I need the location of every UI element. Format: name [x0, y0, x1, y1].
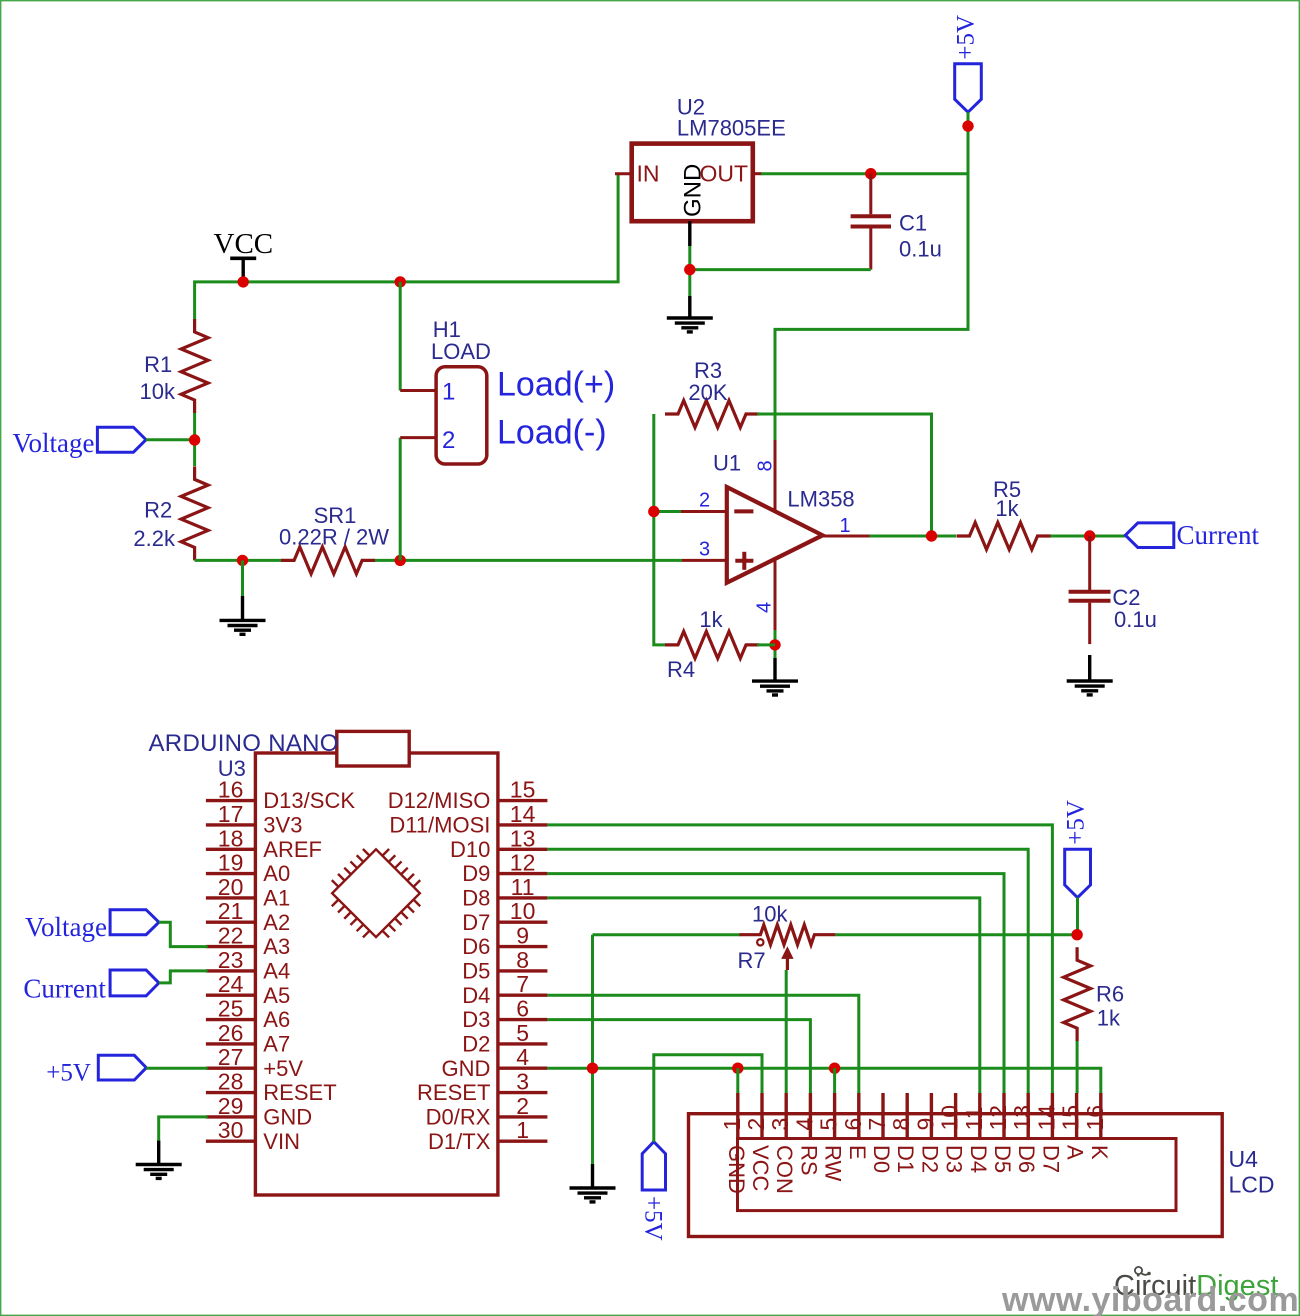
wire H1 pin 2 branch [400, 438, 436, 561]
svg-text:R2: R2 [144, 498, 172, 523]
wire junction to ground [241, 560, 244, 620]
label Load(-) [497, 414, 607, 452]
U3 pin 4 GND [442, 1044, 548, 1081]
U4 pin 16 K [1082, 1093, 1112, 1160]
svg-text:GND: GND [724, 1145, 749, 1194]
node inverting input junction [648, 506, 659, 517]
wire VCC rail from R1 top to U2 IN [195, 174, 618, 320]
U4 pin 1 GND [719, 1093, 749, 1194]
svg-text:2: 2 [516, 1093, 529, 1119]
resistor R5 1k [957, 477, 1051, 550]
svg-text:20: 20 [218, 874, 244, 900]
U4 pin 15 A [1058, 1093, 1088, 1160]
node H1 branch junction on VCC rail [395, 276, 406, 287]
wire R3 right to output vertical [757, 414, 932, 536]
U3 pin 5 D2 [462, 1020, 547, 1057]
wire U2 OUT to +5V rail [761, 172, 968, 175]
wire R6 to LCD A [1076, 1041, 1079, 1093]
U3 pin 18 AREF [206, 825, 322, 862]
U4 pin 8 D1 [888, 1093, 918, 1173]
svg-text:3: 3 [767, 1118, 793, 1131]
U3 pin 13 D10 [450, 825, 547, 862]
svg-text:D11/MOSI: D11/MOSI [389, 813, 490, 838]
svg-text:+5V: +5V [1062, 800, 1089, 845]
svg-text:D0: D0 [869, 1145, 894, 1173]
wire R7 left segment [593, 933, 741, 936]
svg-text:A5: A5 [263, 983, 290, 1008]
wire Voltage flag to pin 22 [159, 922, 208, 946]
svg-text:LCD: LCD [1229, 1172, 1275, 1198]
svg-text:ARDUINO NANO: ARDUINO NANO [149, 730, 339, 757]
svg-text:5: 5 [816, 1118, 842, 1131]
svg-text:VIN: VIN [263, 1129, 300, 1154]
svg-text:22: 22 [218, 923, 244, 949]
label pin 8 [755, 460, 777, 471]
svg-text:12: 12 [985, 1105, 1011, 1131]
svg-text:10k: 10k [140, 379, 176, 404]
svg-text:D4: D4 [462, 983, 490, 1008]
svg-text:3: 3 [516, 1069, 529, 1095]
svg-text:D4: D4 [966, 1145, 991, 1173]
svg-text:4: 4 [791, 1118, 817, 1131]
svg-text:2: 2 [743, 1118, 769, 1131]
wire LCD RW pin branch [833, 1068, 836, 1093]
svg-text:10: 10 [510, 898, 536, 924]
svg-text:A1: A1 [263, 886, 290, 911]
wire D9 to LCD D5 [547, 874, 1004, 1093]
svg-text:A3: A3 [263, 934, 290, 959]
svg-text:13: 13 [510, 825, 536, 851]
svg-text:K: K [1087, 1145, 1112, 1160]
svg-text:23: 23 [218, 947, 244, 973]
svg-text:15: 15 [510, 777, 536, 803]
svg-text:5: 5 [516, 1020, 529, 1046]
node C1 junction [865, 168, 876, 179]
svg-text:A6: A6 [263, 1007, 290, 1032]
svg-text:OUT: OUT [699, 161, 748, 187]
U3 pin 25 A6 [206, 996, 290, 1033]
svg-text:19: 19 [218, 850, 244, 876]
U4 pin 13 D6 [1009, 1093, 1039, 1173]
svg-text:GND: GND [680, 164, 707, 217]
wire H1 pin 1 branch [400, 282, 436, 391]
svg-text:A: A [1063, 1145, 1088, 1160]
voltage regulator U2 LM7805EE [632, 95, 786, 222]
svg-text:10: 10 [937, 1105, 963, 1131]
wire R7 right to +5V node [835, 933, 1077, 936]
svg-text:RESET: RESET [263, 1080, 336, 1105]
U4 pin 10 D3 [937, 1093, 967, 1173]
node +5V junction [962, 120, 973, 131]
label Load(+) [497, 366, 615, 404]
svg-text:7: 7 [516, 971, 529, 997]
svg-text:2: 2 [442, 427, 455, 454]
svg-text:Current: Current [23, 974, 106, 1004]
svg-text:1k: 1k [1097, 1005, 1121, 1030]
U3 pin 10 D7 [462, 898, 547, 935]
svg-text:D3: D3 [942, 1145, 967, 1173]
svg-text:D13/SCK: D13/SCK [263, 788, 355, 813]
svg-text:Load(-): Load(-) [497, 414, 607, 452]
U3 pin 11 D8 [462, 874, 547, 911]
wire D11/MOSI to LCD D7 [547, 825, 1052, 1093]
wire GND rail to LCD K [547, 1068, 1100, 1093]
svg-text:D5: D5 [462, 959, 490, 984]
wire Current flag to pin 23 [159, 971, 208, 983]
svg-text:R4: R4 [667, 657, 695, 682]
svg-text:RW: RW [821, 1145, 846, 1181]
svg-text:R7: R7 [738, 948, 766, 973]
svg-text:+5V: +5V [952, 15, 979, 60]
svg-text:D10: D10 [450, 837, 490, 862]
svg-text:25: 25 [218, 996, 244, 1022]
svg-text:27: 27 [218, 1044, 244, 1070]
wire Voltage flag to divider node [146, 438, 195, 441]
U4 pin 9 D2 [912, 1093, 942, 1173]
svg-text:29: 29 [218, 1093, 244, 1119]
svg-text:9: 9 [912, 1118, 938, 1131]
U3 pin 22 A3 [206, 923, 290, 960]
svg-text:VCC: VCC [214, 228, 274, 260]
svg-text:8: 8 [516, 947, 529, 973]
svg-text:1: 1 [442, 379, 455, 406]
svg-text:26: 26 [218, 1020, 244, 1046]
svg-text:D1/TX: D1/TX [428, 1129, 491, 1154]
net flag +5V (to pin 27) [46, 1055, 146, 1086]
svg-text:1k: 1k [995, 496, 1019, 521]
pin stub U2 IN [615, 172, 632, 175]
U4 pin 5 RW [816, 1093, 846, 1181]
svg-text:D9: D9 [462, 861, 490, 886]
U4 pin 14 D7 [1033, 1093, 1063, 1173]
label pin 3 [699, 539, 710, 561]
svg-text:R6: R6 [1096, 982, 1124, 1007]
node GND rail / ground branch [587, 1063, 598, 1074]
node GND rail / LCD RW [829, 1063, 840, 1074]
wire ground branch / R7 left [591, 935, 594, 1188]
wire R3/R4 left feedback vertical [654, 414, 666, 645]
svg-text:1: 1 [719, 1118, 745, 1131]
svg-text:GND: GND [263, 1105, 312, 1130]
svg-text:D6: D6 [462, 934, 490, 959]
node +5V / R6 junction [1071, 929, 1082, 940]
U3 pin 12 D9 [462, 850, 547, 887]
op-amp U1 LM358 [713, 450, 855, 582]
wire D4 to LCD E [547, 995, 858, 1093]
ground symbol below pin 29 [136, 1165, 182, 1179]
svg-text:13: 13 [1009, 1105, 1035, 1131]
wire R7 wiper to LCD CON [785, 970, 788, 1093]
wire D3 to LCD RS [547, 1020, 810, 1093]
svg-text:+5V: +5V [263, 1056, 303, 1081]
lcd module U4 [689, 1114, 1275, 1237]
svg-text:D8: D8 [462, 886, 490, 911]
U4 pin 4 RS [791, 1093, 821, 1176]
power flag +5V (bottom) [640, 1142, 667, 1241]
node U2 ground junction [684, 264, 695, 275]
U3 pin 2 D0/RX [426, 1093, 548, 1130]
svg-text:www.yiboard.com: www.yiboard.com [1001, 1281, 1299, 1316]
U3 pin 24 A5 [206, 971, 290, 1008]
resistor R1 10k [140, 319, 209, 413]
svg-text:A7: A7 [263, 1032, 290, 1057]
svg-text:+5V: +5V [46, 1060, 91, 1087]
header H1 LOAD [431, 317, 491, 464]
resistor R4 1k [665, 607, 759, 682]
svg-text:17: 17 [218, 801, 244, 827]
svg-text:Voltage: Voltage [25, 912, 107, 942]
arduino nano U3 [149, 730, 498, 1195]
ground symbol below U2 [667, 296, 713, 332]
wire +5V flag to pin 27 [146, 1067, 207, 1070]
U3 pin 30 VIN [206, 1117, 300, 1154]
svg-text:A4: A4 [263, 959, 290, 984]
svg-text:1k: 1k [699, 607, 723, 632]
svg-text:GND: GND [442, 1056, 491, 1081]
U3 pin 23 A4 [206, 947, 290, 984]
wire R5 to Current node [1051, 535, 1126, 538]
wire D8 to LCD D4 [547, 898, 979, 1093]
U3 pin 28 RESET [206, 1069, 337, 1106]
svg-text:2.2k: 2.2k [133, 526, 176, 551]
svg-text:VCC: VCC [748, 1145, 773, 1192]
U3 pin 14 D11/MOSI [389, 801, 547, 838]
resistor R6 1k [1064, 947, 1125, 1041]
svg-text:9: 9 [516, 923, 529, 949]
svg-text:16: 16 [1082, 1105, 1108, 1131]
svg-text:Current: Current [1177, 520, 1260, 550]
U3 pin 26 A7 [206, 1020, 290, 1057]
resistor SR1 0.22R/2W [279, 503, 389, 574]
svg-text:12: 12 [510, 850, 536, 876]
power flag +5V (top) [952, 15, 981, 112]
wire C1 bottom to U2 ground [690, 268, 871, 271]
net flag Current (top) [1125, 520, 1259, 550]
svg-text:A0: A0 [263, 861, 290, 886]
U4 pin 7 D0 [864, 1093, 894, 1173]
svg-text:+5V: +5V [640, 1196, 667, 1241]
svg-text:3: 3 [699, 539, 710, 561]
svg-text:18: 18 [218, 825, 244, 851]
U3 pin 15 D12/MISO [388, 777, 548, 814]
svg-text:C1: C1 [899, 211, 927, 236]
wire LCD GND pin branch [736, 1068, 739, 1093]
node SR1 / H1 pin2 junction [395, 555, 406, 566]
wire R2 bottom to SR1 [195, 559, 282, 562]
wire GND pin 29 to ground [159, 1117, 208, 1164]
net flag Voltage (top) [13, 427, 147, 458]
svg-text:28: 28 [218, 1069, 244, 1095]
wire op-amp pin 4 [774, 559, 777, 658]
svg-text:8: 8 [888, 1118, 914, 1131]
pin stub U2 GND [688, 221, 691, 296]
U3 pin 6 D3 [462, 996, 547, 1033]
svg-text:14: 14 [510, 801, 536, 827]
svg-text:E: E [845, 1145, 870, 1160]
capacitor C2 0.1u [1069, 536, 1157, 644]
svg-text:CON: CON [772, 1145, 797, 1194]
svg-text:D5: D5 [990, 1145, 1015, 1173]
svg-text:D2: D2 [462, 1032, 490, 1057]
svg-text:7: 7 [864, 1118, 890, 1131]
svg-text:2: 2 [699, 490, 710, 512]
capacitor C1 0.1u [851, 174, 942, 270]
ground symbol below C2 [1067, 655, 1113, 695]
U4 pin 6 E [840, 1093, 870, 1160]
U3 pin 27 +5V [206, 1044, 303, 1081]
node output junction [926, 530, 937, 541]
U3 pin 3 RESET [417, 1069, 547, 1106]
svg-text:RESET: RESET [417, 1080, 490, 1105]
svg-text:D6: D6 [1014, 1145, 1039, 1173]
node voltage divider junction [189, 434, 200, 445]
svg-text:D7: D7 [462, 910, 490, 935]
U3 pin 21 A2 [206, 898, 290, 935]
svg-text:LOAD: LOAD [431, 339, 491, 364]
svg-text:R1: R1 [144, 352, 172, 377]
U3 pin 17 3V3 [206, 801, 303, 838]
U3 pin 16 D13/SCK [206, 777, 355, 814]
wire inverting input (pin 2) [654, 510, 727, 513]
watermark www.yiboard.com [1001, 1281, 1299, 1316]
U4 pin 11 D4 [961, 1093, 991, 1173]
svg-text:Voltage: Voltage [13, 428, 95, 458]
svg-text:Load(+): Load(+) [497, 366, 615, 404]
ground symbol below pin 4 [752, 658, 798, 695]
svg-text:RS: RS [796, 1145, 821, 1176]
pin stub U1 pin 3 [682, 559, 727, 562]
wire SR1 to op-amp pin 3 [375, 559, 682, 562]
node pin4 / R4 junction [769, 639, 780, 650]
svg-text:4: 4 [516, 1044, 529, 1070]
svg-text:14: 14 [1033, 1105, 1059, 1131]
svg-text:0.22R / 2W: 0.22R / 2W [279, 525, 389, 550]
resistor R3 20K [665, 358, 759, 428]
svg-text:AREF: AREF [263, 837, 322, 862]
svg-text:A2: A2 [263, 910, 290, 935]
svg-text:11: 11 [961, 1107, 987, 1131]
U3 pin 29 GND [206, 1093, 312, 1130]
svg-text:D2: D2 [917, 1145, 942, 1173]
svg-text:U1: U1 [713, 450, 741, 475]
svg-text:21: 21 [218, 898, 244, 924]
svg-text:11: 11 [511, 874, 535, 900]
node GND rail / LCD GND [732, 1063, 743, 1074]
node ground branch junction [237, 555, 248, 566]
wire D10 to LCD D6 [547, 849, 1028, 1093]
U3 pin 7 D4 [462, 971, 547, 1008]
net flag Current (to A4) [23, 970, 158, 1004]
U3 pin 8 D5 [462, 947, 547, 984]
label pin 4 [753, 602, 775, 613]
svg-text:0.1u: 0.1u [899, 237, 942, 262]
svg-text:16: 16 [218, 777, 244, 803]
svg-text:20K: 20K [688, 380, 727, 405]
svg-text:10k: 10k [752, 902, 788, 927]
svg-text:4: 4 [753, 602, 775, 613]
net flag Voltage (to A3) [25, 910, 159, 942]
U3 pin 1 D1/TX [428, 1117, 547, 1154]
ground symbol below GND rail [570, 1188, 616, 1202]
svg-text:D7: D7 [1038, 1145, 1063, 1173]
U4 pin 3 CON [767, 1093, 797, 1194]
U4 pin 12 D5 [985, 1093, 1015, 1173]
svg-text:LM7805EE: LM7805EE [677, 116, 786, 141]
wire +5V bottom to LCD VCC [654, 1055, 762, 1142]
U4 pin 2 VCC [743, 1093, 773, 1192]
svg-text:0.1u: 0.1u [1114, 607, 1157, 632]
svg-text:3V3: 3V3 [263, 813, 302, 838]
power symbol VCC [214, 228, 274, 282]
wire R4 right to pin4 node [757, 643, 775, 646]
U3 pin 20 A1 [206, 874, 290, 911]
power flag +5V (right) [1062, 800, 1090, 898]
wire +5V rail to op-amp pin 8 [775, 112, 968, 441]
trimmer R7 10k [738, 902, 836, 973]
label pin 2 [699, 490, 710, 512]
svg-text:U4: U4 [1229, 1146, 1259, 1172]
U3 pin 19 A0 [206, 850, 290, 887]
pin stub U2 OUT [753, 172, 762, 175]
wire R1 bottom to divider node [193, 413, 196, 466]
svg-text:IN: IN [637, 161, 660, 187]
U3 pin 9 D6 [462, 923, 547, 960]
node VCC junction [238, 276, 249, 287]
svg-text:1: 1 [516, 1117, 529, 1143]
svg-text:30: 30 [218, 1117, 244, 1143]
wire +5V flag to R6 node [1076, 898, 1079, 935]
svg-text:1: 1 [839, 515, 850, 537]
pin stub U1 pin 8 [774, 440, 777, 512]
svg-text:LM358: LM358 [787, 487, 854, 512]
node R5 / C2 junction [1084, 530, 1095, 541]
svg-text:D1: D1 [893, 1145, 918, 1173]
ground symbol below R2 [220, 620, 266, 634]
svg-text:6: 6 [840, 1118, 866, 1131]
svg-text:D0/RX: D0/RX [426, 1105, 491, 1130]
svg-text:D12/MISO: D12/MISO [388, 788, 491, 813]
svg-text:24: 24 [218, 971, 244, 997]
watermark CircuitDigest logo [1114, 1267, 1278, 1302]
svg-text:6: 6 [516, 996, 529, 1022]
wire op-amp output [823, 535, 956, 538]
svg-text:15: 15 [1058, 1105, 1084, 1131]
svg-text:D3: D3 [462, 1007, 490, 1032]
microcontroller chip icon [319, 836, 434, 951]
resistor R2 2.2k [133, 466, 208, 560]
label pin 1 [839, 515, 850, 537]
svg-text:8: 8 [755, 460, 777, 471]
